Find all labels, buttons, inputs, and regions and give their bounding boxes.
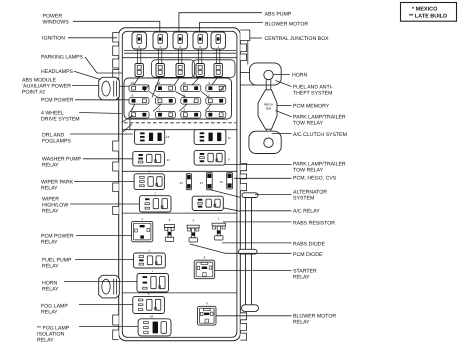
svg-text:TOW RELAY: TOW RELAY [293,168,324,174]
relay K9 [194,150,230,165]
svg-text:PCM, HEGO, CVS: PCM, HEGO, CVS [293,176,337,182]
svg-text:CENTRAL JUNCTION BOX: CENTRAL JUNCTION BOX [265,36,330,42]
mini fuse F2 [181,108,201,119]
wire: box to mega fuse top housing [240,72,249,74]
left wall mounting tab 6 [113,162,119,171]
svg-text:RELAY: RELAY [42,264,59,270]
mega fuse bottom housing [249,131,281,153]
stud bar washer lower [239,249,258,254]
stud bar washer upper [242,193,258,198]
relay K4 (PCM power relay) [132,217,153,242]
svg-text:RELAY: RELAY [41,186,58,192]
svg-text:PCM POWER: PCM POWER [41,98,74,104]
svg-text:14: 14 [166,158,170,162]
label: A/C clutch system [272,132,347,138]
svg-text:50A: 50A [266,107,272,111]
label: ignition [42,36,117,42]
wire: stem from mega fuse to bottom stud [265,129,267,138]
mini fuse F1 [206,108,226,119]
left wall mounting tab 4 [113,70,119,79]
wire: stem from maxi fuse M5 to connector [216,49,218,64]
svg-text:THEFT SYSTEM: THEFT SYSTEM [293,91,332,97]
label: ABS module auxiliary power point #2 [22,78,99,96]
wire: clip connector to fuse row 1 [120,85,130,87]
wire segment w2 inside fuse panel [152,77,160,98]
fog lamp connector C2 (left clip) [99,275,120,298]
mini fuse F6 [181,94,201,105]
wire segment w3 inside fuse panel [175,77,181,85]
wire segment w8 inside fuse panel [201,92,209,98]
mega fuse bottom stud [264,138,273,147]
right wall tab 2 [240,44,246,52]
wire: stub below connector CN3 [179,77,181,79]
connector pair housing A [152,60,195,78]
wire: diagonal to PCM diode callout [190,244,225,253]
svg-text:DRIVE SYSTEM: DRIVE SYSTEM [41,117,80,123]
label: ABS pump [179,11,292,32]
label: blower motor [200,22,309,33]
wire segment w10 inside fuse panel [153,104,161,111]
stud bar foot [242,305,259,312]
relay K8A (starter relay) [194,256,215,279]
svg-text:RABS DIODE: RABS DIODE [293,241,326,247]
wire segment w5 inside fuse panel [212,77,218,85]
wire: diagonal from A/C relay to right wall [223,208,240,211]
maxi fuse M4 [193,32,207,49]
svg-text:** LATE BUILD: ** LATE BUILD [409,14,447,20]
label: power windows [43,14,160,33]
connector pair housing B [192,60,235,78]
label: RABS resistor [223,221,335,227]
wire: box to mega fuse housing lower [240,84,258,86]
label: fog lamp relay [41,304,133,316]
right wall tab 9 [240,333,246,340]
cavity connector CN2 [156,64,164,77]
wire: stem from maxi fuse M4 to connector [198,49,200,64]
svg-text:FOGLAMPS: FOGLAMPS [42,139,71,145]
label: park lamp/trailer tow relay (lower) [225,162,346,174]
label: wiper high/low relay [42,197,139,215]
label: starter relay [215,269,317,281]
wire segment w9 inside fuse panel [131,104,136,111]
wire: second bus line across maxi fuse section [124,52,236,54]
wire: vertical from CJB tab to mega housing [247,41,249,65]
relay K12 (DRL and foglamps) [135,130,170,145]
relay K5 (fuel pump relay) [134,248,166,268]
relay K6 (fog lamp relay) [133,292,165,313]
cavity connector CN4 [196,64,204,77]
dashed cover split line [124,122,236,124]
power distribution box inner wall [122,31,237,337]
mini fuse panel outline [124,78,232,119]
cavity connector CN1 [135,64,143,77]
label: horn relay [42,281,137,293]
wire: fuse panel to relay section [129,117,131,130]
svg-text:WINDOWS: WINDOWS [43,20,70,26]
svg-text:RELAY: RELAY [293,320,310,326]
mini fuse F11 [155,81,175,92]
wire segment w6 inside fuse panel [149,92,158,98]
svg-text:POINT #2: POINT #2 [22,90,45,96]
label: PCM power [41,98,129,104]
svg-text:10: 10 [150,314,154,318]
mini fuse F5 [206,94,226,105]
left wall mounting tab 7 [113,183,119,192]
svg-text:IGNITION: IGNITION [42,36,65,42]
svg-text:PARKING LAMPS: PARKING LAMPS [41,55,84,61]
svg-text:* MEXICO: * MEXICO [412,6,438,12]
label: PCM diode [225,252,323,258]
label: fuel and anti-theft system [276,81,334,97]
label: park lamp/trailer tow relay (upper) [276,111,346,127]
mega fuse top housing [250,63,282,85]
svg-text:RELAY: RELAY [42,163,59,169]
svg-text:10: 10 [183,81,187,85]
mini fuse F9 [206,81,226,92]
mega fuse top stud (horn feed) [264,70,273,79]
svg-text:HORN: HORN [292,73,308,79]
mega fuse MEGA 50A [258,90,277,129]
label: 4 wheel drive system [41,111,122,123]
relay K11 [194,130,231,145]
wire: stub below connector CN4 [199,77,201,79]
wire: stem from top stud to mega fuse [265,80,267,91]
svg-text:14: 14 [200,181,204,185]
label: RABS diode [222,241,326,247]
svg-text:15: 15 [220,180,224,184]
divider above relay section 4 [123,292,237,294]
maxi fuse M2 [153,32,167,49]
diode D2 [164,218,174,242]
svg-text:13: 13 [180,181,184,185]
label: PCM memory [276,104,329,110]
svg-text:PCM DIODE: PCM DIODE [293,252,323,258]
left wall mounting tab 1 [113,33,119,43]
left wall mounting tab 10 [113,330,119,340]
right wall tab 8 [240,323,246,330]
label: DRL and foglamps [42,133,133,145]
wire segment w1 inside fuse panel [134,77,139,85]
label: PCM power relay [41,234,132,246]
wire: stub below connector CN2 [159,77,161,79]
label: fuel pump relay [42,258,134,270]
left wall mounting tab 5 [113,141,119,151]
divider above relay section 2 [123,170,237,172]
wire segment w14 inside fuse panel [144,85,149,92]
wire: stem from maxi fuse M2 to connector [158,49,160,64]
left wall mounting tab 8 [113,207,119,215]
headlamp connector C1 (left clip) [99,77,120,100]
svg-text:SYSTEM: SYSTEM [293,196,314,202]
svg-text:RABS RESISTOR: RABS RESISTOR [293,221,335,227]
cavity connector CN5 [214,64,222,77]
mini fuse F12 [129,81,149,92]
svg-text:ABS PUMP: ABS PUMP [265,11,292,17]
label: PCM, HEGO, CVS [234,176,337,182]
wire: stub below connector CN5 [217,77,219,79]
legend box: Mexico / late build [401,3,457,22]
wire: stem from maxi fuse M1 to connector [137,49,139,64]
right wall tab 5 [240,174,246,179]
resistor R15 (RABS resistor) [220,172,233,189]
diode D1 [212,216,225,240]
divider above relay section 1 [123,129,237,131]
diode D14 [200,172,213,189]
left wall mounting tab 3 [113,59,119,68]
relay K16 (fog lamp isolation relay) [138,314,171,336]
left wall mounting tab 9 [113,315,119,325]
wire: stub below connector CN1 [138,77,140,79]
wire: stem from maxi fuse M3 to connector [178,49,180,64]
wire segment w4 inside fuse panel [192,77,200,85]
power distribution box outer wall [119,28,241,341]
maxi fuse M3 [173,32,187,49]
wire segment w12 inside fuse panel [205,104,211,111]
wire segment w11 inside fuse panel [179,104,187,111]
svg-text:RELAY: RELAY [42,287,59,293]
maxi fuse M1 [132,32,146,49]
right wall tab 6 [240,183,246,190]
relay K10 (wiper high/low relay) [139,192,171,213]
label: blower motor relay [216,314,336,326]
svg-text:RELAY: RELAY [41,310,58,316]
svg-text:12: 12 [166,135,170,139]
svg-text:BLOWER MOTOR: BLOWER MOTOR [265,22,308,28]
left wall mounting tab 2 [113,46,119,56]
wire: diagonal from D14 to right wall [210,190,240,198]
right wall tab 3 [240,54,246,61]
battery feed stud bar [245,193,247,305]
cavity connector CN3 [176,64,184,77]
relay K13 (wiper park relay) [134,170,164,190]
svg-text:RELAY: RELAY [41,240,58,246]
svg-text:RELAY: RELAY [37,338,54,344]
label: washer pump relay [42,157,133,169]
svg-text:HEADLAMPS: HEADLAMPS [41,69,74,75]
label: A/C relay [240,209,320,215]
svg-text:TOW RELAY: TOW RELAY [293,121,324,127]
divider below maxi fuse section [123,57,237,59]
divider above relay section 3 [123,212,237,214]
relay K14 (washer pump relay) [133,151,170,166]
right wall tab 7 [240,313,246,320]
mini fuse F3 [155,108,175,119]
relay K9A (blower motor relay) [198,302,217,325]
label: alternator system [255,190,327,202]
wire segment w13 inside fuse panel [219,85,226,92]
wire: bus line across maxi fuse section [124,50,236,52]
label: central junction box [250,36,329,42]
mini fuse F7 [155,94,175,105]
label: fog lamp isolation relay [37,326,138,344]
relay K8 (A/C relay) [192,196,223,210]
maxi fuse M5 [211,32,225,49]
relay K7 (horn relay) [137,269,169,292]
label: headlamps [41,69,101,80]
label: wiper park relay [41,180,134,192]
svg-text:RELAY: RELAY [293,275,310,281]
wire segment w7 inside fuse panel [176,92,187,98]
svg-text:A/C CLUTCH SYSTEM: A/C CLUTCH SYSTEM [293,132,347,138]
diode D13 [180,174,192,190]
wire: diagonal at left of dashed line [123,124,132,132]
label: parking lamps [41,55,123,74]
mini fuse F8 [129,94,149,105]
diode D3 [187,218,199,242]
mini fuse F10 [181,81,201,92]
right wall tab 4 [240,163,246,170]
svg-text:A/C RELAY: A/C RELAY [293,209,320,215]
right wall tab (central junction box attachment) [240,30,250,41]
svg-text:PCM MEMORY: PCM MEMORY [293,104,330,110]
svg-text:RELAY: RELAY [42,209,59,215]
svg-text:11: 11 [228,136,231,140]
wire: wall to fuse panel diagonal [122,116,133,123]
label: horn [273,73,307,79]
mini fuse F4 [129,108,149,119]
